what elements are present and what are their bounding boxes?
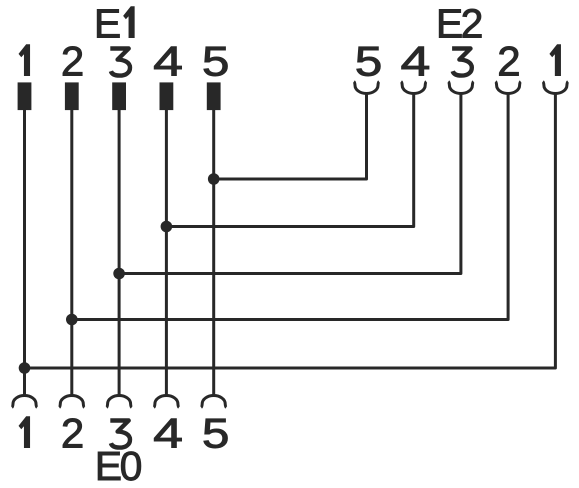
socket E0-1 — [12, 396, 37, 408]
pin E1-5 contact — [207, 82, 221, 110]
wire E1 pin4 vertical — [165, 96, 168, 395]
socket E2-3 — [448, 82, 473, 94]
socket E0-5 — [201, 396, 226, 408]
svg-text:E: E — [94, 1, 121, 47]
svg-text:E2: E2 — [436, 1, 482, 47]
svg-text:E0: E0 — [95, 443, 142, 488]
label E0 pin3 — [110, 421, 130, 448]
svg-text:2: 2 — [61, 410, 84, 457]
wire link pin1 E1-E2 — [25, 94, 556, 368]
label E0 pin1 — [19, 417, 30, 448]
junction dot pin3 — [113, 268, 125, 280]
socket E2-5 — [354, 82, 379, 94]
wire E1 pin3 vertical — [118, 96, 121, 395]
wire E1 pin1 vertical — [23, 96, 26, 395]
socket E2-4 — [401, 82, 426, 94]
socket E2-2 — [496, 82, 521, 94]
pin E1-2 contact — [65, 82, 79, 110]
svg-text:5: 5 — [202, 37, 230, 85]
svg-text:5: 5 — [355, 37, 383, 85]
svg-text:4: 4 — [153, 410, 183, 457]
junction dot pin4 — [161, 221, 173, 233]
junction dot pin5 — [208, 173, 220, 185]
label E2 pin3 — [452, 49, 472, 76]
wire link pin2 E1-E2 — [72, 94, 508, 320]
socket E0-2 — [59, 395, 84, 407]
socket E0-3 — [107, 396, 132, 408]
svg-text:2: 2 — [497, 38, 520, 85]
wire E1 pin2 vertical — [70, 96, 73, 395]
wire E1 pin5 vertical — [212, 96, 215, 395]
socket E2-1 — [543, 82, 568, 94]
svg-text:5: 5 — [202, 409, 230, 457]
label E1 pin1 — [19, 45, 30, 76]
pin E1-1 contact — [18, 82, 32, 110]
wire link pin4 E1-E2 — [166, 94, 413, 227]
svg-text:2: 2 — [61, 38, 84, 85]
wire link pin3 E1-E2 — [119, 94, 461, 274]
socket E0-4 — [154, 396, 179, 408]
label E1 pin3 — [110, 49, 130, 76]
label E2 pin1 — [550, 45, 561, 76]
junction dot pin2 — [66, 314, 78, 326]
junction dot pin1 — [19, 362, 31, 374]
svg-text:4: 4 — [153, 38, 183, 85]
svg-text:4: 4 — [400, 38, 430, 85]
wire link pin5 E1-E2 — [214, 94, 367, 179]
pin E1-4 contact — [160, 82, 174, 110]
pin E1-3 contact — [112, 82, 126, 110]
